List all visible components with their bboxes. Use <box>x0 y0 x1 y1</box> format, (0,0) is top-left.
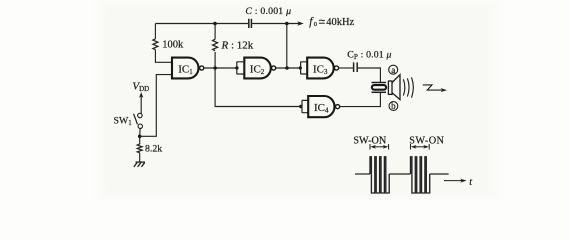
waveform burst 2 <box>411 157 430 193</box>
dimension ticks burst 2 <box>411 144 430 150</box>
VDD arrow <box>140 96 142 114</box>
IC2 input bracket <box>237 62 245 75</box>
resistor 8.2k <box>137 144 142 153</box>
wire 100k to IC1 input A <box>155 50 172 63</box>
wire top horizontal feedback to capacitor C <box>155 23 248 25</box>
transducer piezo body <box>372 85 386 90</box>
terminal b <box>389 102 398 111</box>
NAND gate IC1 body <box>172 58 199 79</box>
wire node down to IC4 input <box>215 68 301 107</box>
wire IC1 input B to switch node <box>140 75 172 137</box>
transducer SP piezo top plate <box>372 82 387 84</box>
speaker driver rect <box>388 81 392 94</box>
node dot switch to 8.2k junction <box>138 135 142 139</box>
svg-text:b: b <box>391 101 396 111</box>
switch SW1 top contact <box>138 113 142 117</box>
svg-text:t: t <box>469 177 472 188</box>
svg-text:R : 12k: R : 12k <box>221 40 254 52</box>
IC4 output bubble <box>336 105 340 109</box>
wire capacitor C branch vertical to IC2 output <box>286 24 288 69</box>
svg-text:a: a <box>391 65 395 75</box>
svg-text:100k: 100k <box>162 40 184 51</box>
node dot IC1 out / R bottom <box>213 66 217 70</box>
IC3 input bracket <box>301 62 308 75</box>
NAND gate IC3 body <box>307 58 333 79</box>
resistor 8.2k bottom lead <box>139 153 141 162</box>
node dot IC2 input bracket <box>235 66 238 69</box>
svg-text:SW-ON: SW-ON <box>409 136 444 147</box>
IC1 output bubble <box>200 66 204 70</box>
approx-equal symbol <box>319 19 325 22</box>
switch SW1 lever <box>134 114 138 125</box>
waveform baseline left <box>355 173 370 175</box>
ultrasonic direction squiggle <box>423 85 442 90</box>
waveform baseline middle <box>389 173 410 175</box>
resistor 100k <box>153 39 158 50</box>
transducer piezo bottom plate <box>372 91 387 93</box>
switch SW1 bottom contact <box>138 124 142 128</box>
wire IC3 output to capacitor Cp <box>338 67 353 69</box>
IC3 output bubble <box>334 66 338 70</box>
svg-text:SW-ON: SW-ON <box>353 136 386 147</box>
wire feedback vertical upper <box>154 24 156 39</box>
capacitor Cp plates <box>354 62 358 72</box>
wire R bottom lead to IC1 output node <box>214 52 216 68</box>
dimension arrowheads burst 1 <box>370 145 376 149</box>
wire IC1 output to IC2 input <box>204 67 237 69</box>
wire IC4 output to transducer bottom terminal <box>340 92 381 106</box>
IC4 input bracket <box>302 100 308 113</box>
node dot C right branch <box>285 22 289 26</box>
NAND gate IC2 body <box>244 58 271 79</box>
wire capacitor C to node and f0 arrow line <box>252 23 298 25</box>
node dot IC4 input <box>299 105 302 108</box>
resistor R 12k top lead <box>214 24 216 40</box>
svg-text:8.2k: 8.2k <box>145 144 162 155</box>
waveform burst 1 <box>370 157 389 193</box>
waveform baseline right <box>430 173 449 175</box>
speaker horn <box>392 75 400 100</box>
NAND gate IC4 body <box>308 96 334 117</box>
t axis arrow <box>444 180 462 182</box>
terminal a <box>389 65 398 74</box>
node dot R top <box>213 22 217 26</box>
wire switch bottom to junction <box>139 129 141 137</box>
arrow to f0 label <box>299 23 300 25</box>
wire Cp to transducer top terminal <box>358 68 381 83</box>
IC2 output bubble <box>272 66 276 70</box>
svg-text:40kHz: 40kHz <box>326 17 354 28</box>
capacitor C plates <box>249 19 252 28</box>
svg-text:C : 0.001 μ: C : 0.001 μ <box>245 6 291 17</box>
ground <box>134 162 145 167</box>
dimension ticks burst 1 <box>370 144 389 150</box>
sound wave arcs <box>403 77 413 97</box>
dimension arrowheads burst 2 <box>411 145 417 149</box>
svg-text:0: 0 <box>314 21 317 28</box>
svg-text:CP : 0.01 μ: CP : 0.01 μ <box>347 50 391 62</box>
node dot IC2 out / C branch <box>285 66 289 70</box>
resistor 8.2k top lead <box>139 136 141 144</box>
wire IC2 output to IC3 input <box>275 67 300 69</box>
resistor R 12k <box>213 39 218 51</box>
node dot IC3 input <box>299 66 302 69</box>
